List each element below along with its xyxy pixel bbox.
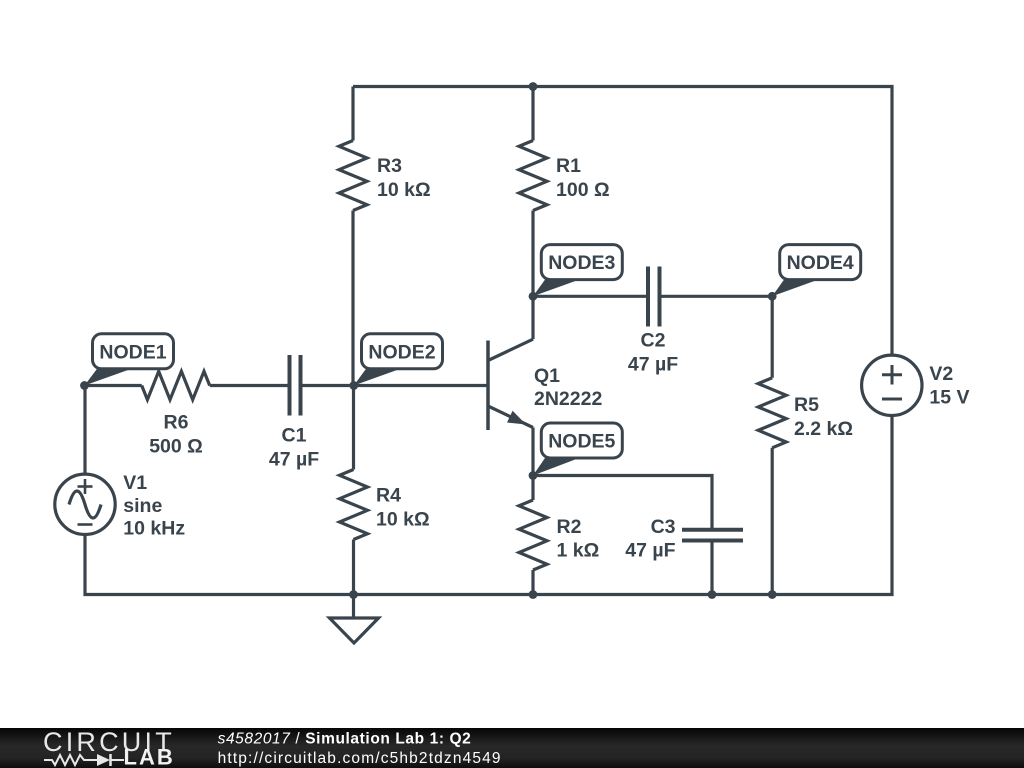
wire NODE5 to C3 [533,476,712,529]
svg-text:http://circuitlab.com/c5hb2tdz: http://circuitlab.com/c5hb2tdzn4549 [218,750,502,767]
junction node NODE4 [768,292,777,301]
resistor R4 [340,470,368,540]
node label NODE4 [772,245,861,297]
junction node ground rail at R4 [349,590,358,599]
wire R2 bottom to ground rail [531,570,534,595]
resistor R6 [142,371,210,399]
capacitor C3 plates [682,528,743,532]
svg-text:47 µF: 47 µF [625,540,675,562]
capacitor C1 plates [288,355,292,416]
svg-text:C2: C2 [641,330,666,352]
wire NODE4 to R5 [771,296,774,378]
wire R5 bottom to ground rail [771,448,774,595]
wire C3 to ground rail [710,543,713,595]
resistor R5 [758,378,786,448]
footer logo diode [97,754,110,766]
svg-text:2.2 kΩ: 2.2 kΩ [794,418,853,440]
V1 plus sign [78,479,93,494]
wire NODE1 to R6 [85,384,142,387]
wire R6 to C1 [210,384,288,387]
junction node top of R1 [529,82,538,91]
svg-text:LAB: LAB [124,745,175,768]
svg-text:R2: R2 [557,516,582,538]
svg-text:V1: V1 [123,472,147,494]
junction node NODE3 [529,292,538,301]
node label NODE5 [533,423,622,476]
wire R3 branch top [351,87,354,141]
svg-text:47 µF: 47 µF [269,449,319,471]
resistor R2 [519,500,547,570]
svg-text:R5: R5 [794,394,819,416]
svg-text:sine: sine [123,495,162,517]
junction node ground rail at C3 [708,590,717,599]
node label NODE3 [533,245,622,297]
svg-text:15 V: 15 V [929,386,969,408]
V2 minus sign [882,398,902,401]
svg-text:C1: C1 [282,425,307,447]
V1 minus sign [78,523,93,526]
transistor Q1 emitter arrow [507,411,526,425]
wire R4 bottom to ground rail [352,540,355,595]
ground stem [352,595,355,619]
resistor R1 [519,141,547,211]
transistor Q1 emitter diagonal [488,406,533,428]
capacitor C2 plates [646,267,650,327]
wire NODE3 to C2 [533,295,646,298]
ground triangle [330,618,379,643]
svg-text:NODE2: NODE2 [368,341,435,363]
node label NODE2 [354,334,443,386]
svg-text:NODE4: NODE4 [787,252,854,274]
svg-text:1 kΩ: 1 kΩ [557,540,600,562]
svg-text:10 kΩ: 10 kΩ [377,179,431,201]
junction node ground rail at R5 [768,590,777,599]
wire NODE5 to R2 [531,476,534,501]
svg-text:100 Ω: 100 Ω [556,179,610,201]
footer bar [0,728,1024,768]
svg-text:R6: R6 [164,412,189,434]
wire V1 top to NODE1 [83,386,86,475]
node label NODE1 [85,334,174,386]
footer logo resistor squiggle [44,755,97,765]
wire C1 to NODE2 [303,384,354,387]
junction node NODE1 [80,381,89,390]
wire C2 to NODE4 [662,295,773,298]
V2 plus sign [882,365,902,385]
wire R3 bottom to NODE2 [351,211,354,386]
svg-text:2N2222: 2N2222 [534,388,602,410]
transistor Q1 collector diagonal [488,339,533,360]
svg-text:NODE3: NODE3 [548,252,615,274]
svg-text:NODE1: NODE1 [99,341,166,363]
svg-text:Q1: Q1 [534,365,560,387]
svg-text:C3: C3 [651,516,676,538]
wire NODE2 to R4 [352,386,355,470]
wire bottom rail from V2 bottom to V1 bottom [85,415,892,594]
junction node NODE2 [349,381,358,390]
resistor R3 [339,141,367,211]
voltage source V1 circle [55,474,115,534]
svg-text:R3: R3 [377,155,402,177]
wire R1 bottom to NODE3 [531,211,534,297]
svg-text:10 kHz: 10 kHz [123,518,185,540]
svg-text:s4582017 / Simulation Lab 1: Q: s4582017 / Simulation Lab 1: Q2 [218,731,472,748]
wire top rail from R3 top to V2 branch [353,87,892,356]
svg-text:R4: R4 [376,485,401,507]
voltage source V2 circle [862,355,922,415]
V1 sine symbol [69,491,101,518]
svg-text:500 Ω: 500 Ω [149,436,203,458]
svg-text:NODE5: NODE5 [548,431,615,453]
wire Q1 collector to NODE3 [531,296,534,339]
junction node ground rail at R2 [529,590,538,599]
svg-text:R1: R1 [556,155,581,177]
wire R1 branch top [531,87,534,141]
svg-text:47 µF: 47 µF [628,354,678,376]
svg-text:V2: V2 [929,363,953,385]
wire NODE2 to Q1 base [354,384,488,387]
transistor Q1 base bar [486,341,490,431]
svg-text:10 kΩ: 10 kΩ [376,509,430,531]
junction node NODE5 [529,471,538,480]
wire Q1 emitter to NODE5 [531,428,534,476]
